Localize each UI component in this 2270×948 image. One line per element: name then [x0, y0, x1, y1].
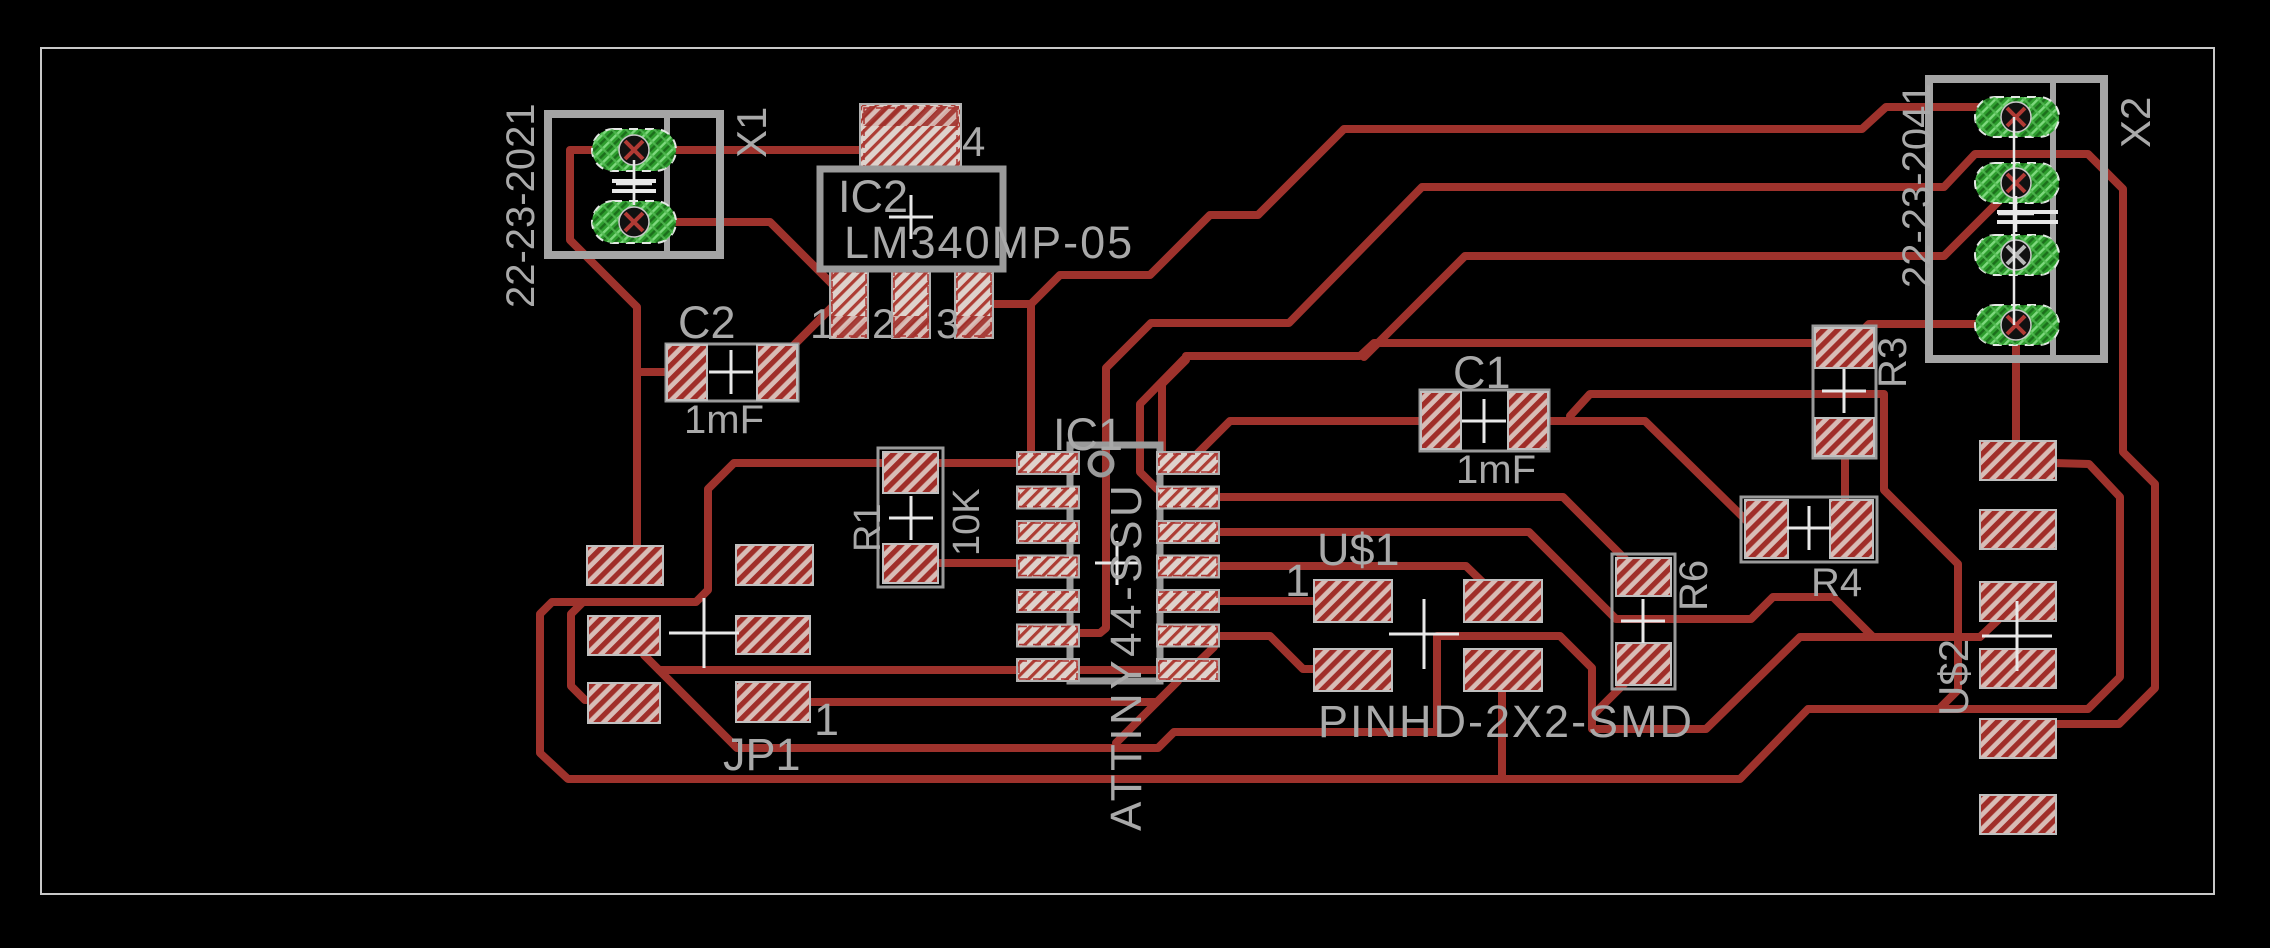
- pad R4 left: [1745, 500, 1788, 558]
- wire X1 pad1 to IC2 pad4: [640, 146, 880, 154]
- svg-text:2: 2: [872, 300, 895, 347]
- wire stub to C2 left pad: [637, 368, 682, 376]
- wire GND loop: IC1 pin6 channel, staircase y184, around X2 right to U$2 pad5: [1052, 154, 2155, 724]
- wire JP1 bottom-right pad to row7 diagonal: [775, 698, 1156, 706]
- svg-text:R6: R6: [1672, 560, 1716, 611]
- origin cross IC2: [889, 195, 933, 239]
- pads IC1 right column pins 8-14: [1157, 452, 1219, 681]
- wire JP1 net: BL pad loop up, across y602, riser to y463 rail through R1 top pad to IC1 pin1: [571, 463, 1046, 700]
- pad R3 bottom: [1815, 418, 1874, 456]
- pad JP1 top-left: [587, 546, 663, 585]
- pad X1 1 (green): [592, 129, 676, 171]
- svg-text:IC2: IC2: [838, 171, 908, 222]
- resistor R4 body outline: [1741, 497, 1877, 562]
- svg-text:10K: 10K: [946, 488, 988, 556]
- wire channel riser from IC1 pin2 to R3 rail: [1140, 359, 1184, 489]
- wire X1 pad1 left loop down to JP1 top-left pad: [570, 150, 640, 560]
- pad JP1 mid-left: [588, 616, 660, 655]
- origin cross X1: [616, 166, 652, 202]
- wire C2 right pad to IC2 pad1: [787, 306, 833, 352]
- IC2 body outline: [820, 169, 1003, 269]
- pad IC2 1: [830, 270, 868, 338]
- connector X2 inner divider line: [2050, 79, 2056, 359]
- wire IC1 pin2 right to R6 top pad: [1190, 497, 1642, 576]
- wire R1 bottom pad to IC1 pin4 left: [911, 563, 1050, 566]
- svg-text:R4: R4: [1811, 561, 1862, 605]
- svg-text:U$2: U$2: [1930, 639, 1977, 716]
- pad U$2 6: [1980, 795, 2056, 834]
- pad U$1 bottom-right: [1464, 649, 1542, 691]
- pad C1 right: [1508, 392, 1548, 449]
- pad C2 left: [667, 345, 707, 400]
- wire R3 bottom pad to R4 right pad: [1841, 440, 1849, 526]
- pad R1 top: [883, 452, 938, 493]
- wire IC1 pin3 right through R6 center, R4 underpass, to U$2 pad3: [1190, 532, 1998, 637]
- wire IC2 pad3 staircase to X2 pad1: [1031, 107, 2016, 304]
- X2 polarity symbol lines: [1997, 210, 2058, 214]
- pad U$2 3: [1980, 582, 2056, 621]
- svg-text:R3: R3: [1871, 337, 1915, 388]
- svg-text:JP1: JP1: [723, 729, 801, 780]
- wire T3 net: IC1 pin1 right riser, staircase to X2 pad2: [1162, 360, 1186, 456]
- svg-text:4: 4: [962, 118, 985, 165]
- wire R3 top pad diag to X2 pad4 rail: [1845, 324, 2014, 348]
- svg-text:22-23-2041: 22-23-2041: [1895, 83, 1939, 288]
- svg-text:1: 1: [810, 300, 833, 347]
- pads IC1 left column pins 1-7: [1017, 452, 1079, 681]
- origin cross U$2 (large): [1982, 601, 2052, 671]
- resistor R3 body outline: [1813, 326, 1876, 458]
- pad U$2 4: [1980, 649, 2056, 688]
- wire staircase y256 to X2 pad2: [1364, 184, 2016, 357]
- svg-text:3: 3: [936, 300, 959, 347]
- X2 connecting line between holes: [2013, 117, 2016, 325]
- wire IC2 pad3 junction: [985, 300, 1031, 308]
- pad U$1 top-left: [1314, 580, 1392, 622]
- svg-text:C2: C2: [678, 297, 736, 348]
- svg-text:LM340MP-05: LM340MP-05: [844, 217, 1134, 268]
- IC1 body outline: [1070, 445, 1160, 681]
- svg-text:PINHD-2X2-SMD: PINHD-2X2-SMD: [1318, 696, 1694, 747]
- wire IC2 pad3 down to IC1 pin1 left: [1027, 304, 1035, 460]
- wire IC1 pin6 right to U$1 BL pad: [1190, 636, 1352, 669]
- yellow airwire at JP1 mid-right pad: [768, 634, 790, 637]
- IC1 pin1 marker circle: [1090, 453, 1112, 475]
- svg-text:1: 1: [814, 694, 839, 745]
- origin cross R4: [1787, 506, 1831, 550]
- wire IC1 pin4 right to U$1 TR pad: [1190, 566, 1500, 599]
- pad IC2 tab 4: [860, 104, 961, 169]
- capacitor C1 body outline: [1420, 390, 1549, 451]
- resistor R1 body outline: [878, 448, 943, 587]
- pad IC2 2: [892, 270, 930, 338]
- wire X1 pad2 to IC2 pad1: [640, 222, 849, 304]
- pad C1 left: [1421, 392, 1461, 449]
- origin cross U$1 (large): [1389, 599, 1459, 669]
- wire R3 top pad west rail: [1186, 343, 1843, 356]
- capacitor C2 body outline: [666, 344, 798, 401]
- pad R6 top: [1616, 558, 1671, 596]
- wire JP1 outer bus: y602 west end, down x540, bottom bus y777, diag up, y702, inner loop around U$2 to pad1: [540, 462, 2120, 779]
- svg-text:C1: C1: [1453, 347, 1511, 398]
- wire C1 left pad to IC1 pin1 right: [1197, 421, 1439, 462]
- svg-text:R1: R1: [847, 503, 889, 552]
- origin cross X2: [1998, 196, 2034, 232]
- wire JP1 mid-left pad diag to bottom bus A: [644, 620, 1998, 748]
- connector X1 outline box: [548, 114, 720, 255]
- origin cross JP1 (large): [669, 598, 739, 668]
- pad R6 bottom: [1616, 643, 1671, 685]
- svg-text:IC1: IC1: [1053, 409, 1123, 460]
- wire R6 bottom pad diag to bus A corner: [1594, 667, 1641, 714]
- origin cross R1: [889, 496, 933, 540]
- wire IC1 pin5 right to U$1 TL pad: [1190, 597, 1352, 605]
- origin cross R6: [1621, 599, 1665, 643]
- svg-text:1: 1: [1285, 555, 1310, 606]
- pad X2 3 (green): [1975, 235, 2059, 275]
- pad U$2 1: [1980, 441, 2056, 480]
- pad JP1 bottom-left: [588, 683, 660, 723]
- svg-text:U$1: U$1: [1317, 524, 1400, 575]
- pad X1 2 (green): [592, 201, 676, 243]
- pad U$1 top-right: [1464, 580, 1542, 622]
- pad X2 4 (green): [1975, 305, 2059, 345]
- svg-text:X2: X2: [2112, 97, 2159, 148]
- pad C2 right: [757, 345, 797, 400]
- wire branch y670 rail to IC1 pin7 left pad: [659, 647, 1214, 670]
- pad JP1 bottom-right: [736, 682, 810, 722]
- svg-text:X1: X1: [728, 107, 775, 158]
- svg-text:ATTINY44-SSU: ATTINY44-SSU: [1102, 482, 1151, 831]
- wire IC1 pin7 right pad diag down to bus A: [1116, 681, 1178, 743]
- origin cross C2: [709, 350, 753, 394]
- wire U$1 BR pad down to bottom bus: [1498, 672, 1506, 775]
- pad R1 bottom: [883, 544, 938, 583]
- origin cross C1: [1462, 399, 1506, 443]
- svg-text:22-23-2021: 22-23-2021: [499, 103, 543, 308]
- pad IC2 3: [955, 270, 993, 338]
- origin cross IC1: [1095, 541, 1139, 585]
- connector X1 inner divider line: [664, 114, 670, 255]
- pad U$1 bottom-left: [1314, 649, 1392, 691]
- X1 polarity symbol lines: [633, 160, 636, 205]
- pad R3 top: [1815, 328, 1874, 368]
- wire X2 pad4 down to U$2 pad1: [2012, 330, 2020, 460]
- wire branch from C1 net through R3 center, down right side to U$2 pad6: [1570, 394, 1958, 707]
- pad U$2 2: [1980, 510, 2056, 549]
- connector X2 outline box: [1929, 79, 2104, 359]
- pad U$2 5: [1980, 719, 2056, 758]
- pad JP1 mid-right: [736, 616, 810, 654]
- pad R4 right: [1830, 500, 1873, 558]
- svg-text:1mF: 1mF: [684, 398, 764, 442]
- resistor R6 body outline: [1612, 554, 1675, 689]
- wire C1 right pad to R4 left pad: [1530, 421, 1752, 526]
- svg-text:1mF: 1mF: [1456, 448, 1536, 492]
- pad X2 1 (green): [1975, 97, 2059, 137]
- origin cross R3: [1822, 369, 1866, 413]
- pad X2 2 (green): [1975, 163, 2059, 203]
- pad JP1 top-right: [736, 545, 813, 585]
